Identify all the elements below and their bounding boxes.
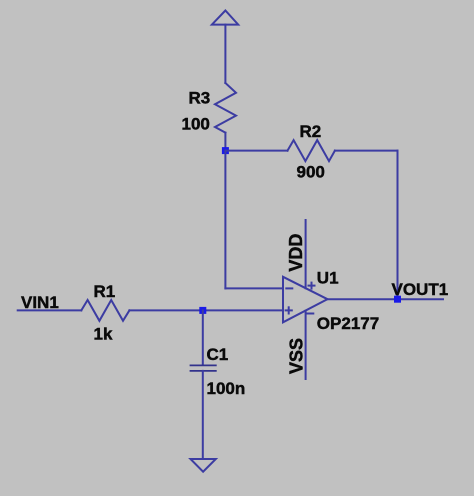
- resistor R3: [182, 83, 237, 133]
- svg-text:100: 100: [182, 114, 210, 133]
- node B (R1/C1 junction): [199, 307, 206, 314]
- svg-text:VDD: VDD: [286, 234, 306, 272]
- svg-text:VOUT1: VOUT1: [392, 280, 449, 299]
- op-amp VSS pin: [287, 311, 307, 379]
- wire C1 to ground: [202, 371, 204, 459]
- svg-text:100n: 100n: [207, 379, 246, 398]
- wire node A down to inverting input: [224, 151, 226, 289]
- capacitor C1: [191, 345, 246, 398]
- wire op-amp output: [328, 298, 444, 300]
- svg-text:U1: U1: [317, 269, 339, 288]
- node A (R3/R2/inverting junction): [222, 147, 229, 154]
- svg-text:R2: R2: [300, 122, 322, 141]
- op-amp non-inverting input plus sign: [286, 307, 292, 313]
- svg-text:R3: R3: [189, 89, 211, 108]
- node VOUT1: [392, 280, 449, 303]
- power supply VDD symbol: [212, 11, 238, 25]
- wire node A to R2: [225, 150, 287, 152]
- svg-text:1k: 1k: [94, 325, 113, 344]
- op-amp U1 triangle: [283, 269, 379, 333]
- wire to inverting input: [225, 287, 283, 289]
- svg-text:900: 900: [297, 163, 325, 182]
- resistor R1: [81, 282, 129, 344]
- wire R2 to feedback corner: [335, 150, 398, 152]
- op-amp VDD plus sign: [309, 283, 315, 289]
- wire feedback down to output node: [397, 151, 399, 300]
- svg-text:C1: C1: [207, 345, 229, 364]
- svg-text:VIN1: VIN1: [21, 293, 59, 312]
- wire power to R3: [224, 25, 226, 83]
- op-amp VDD pin: [286, 220, 306, 288]
- ground: [191, 459, 216, 472]
- svg-text:VSS: VSS: [287, 338, 307, 374]
- op-amp inverting input minus sign: [286, 287, 292, 289]
- svg-text:R1: R1: [94, 282, 116, 301]
- wire R3 to node A: [224, 133, 226, 151]
- wire R1 to non-inverting input: [129, 309, 283, 311]
- resistor R2: [288, 122, 335, 182]
- wire node B down to C1: [202, 310, 204, 365]
- node VIN1 terminal wire: [18, 293, 82, 312]
- svg-text:OP2177: OP2177: [317, 314, 379, 333]
- op-amp VSS minus sign: [307, 313, 313, 315]
